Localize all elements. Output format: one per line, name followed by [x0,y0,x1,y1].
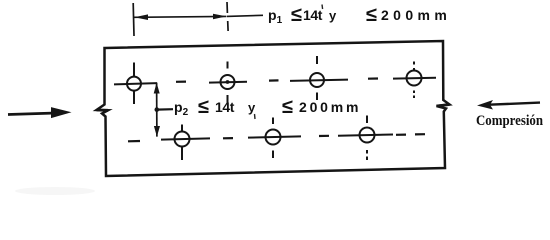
label p1 <= 14t y <= 200mm [268,4,451,26]
svg-text:200mm: 200mm [381,7,451,23]
left compression force arrow [8,107,72,118]
dash left of B1 [128,140,140,143]
bottom row bolt B2 [248,118,301,159]
svg-text:14t: 14t [303,7,323,23]
svg-text:≤: ≤ [366,4,377,26]
row spacing dimension p2 [154,83,160,137]
svg-text:p2: p2 [174,99,189,118]
dash between B1 B2 [223,137,233,139]
svg-text:≤: ≤ [291,4,302,26]
stray scan fleck near bottom label [254,114,257,119]
svg-text:≤: ≤ [198,96,209,118]
label p2 <= 14t y <= 200mm [174,96,361,118]
top row bolt T4 [393,62,436,99]
dash right of B3 (2) [415,133,425,135]
top row bolt T2 [209,62,247,104]
svg-text:p1: p1 [268,7,283,26]
stray scan fleck near top label [321,5,324,10]
dash between T3 T4 [368,77,378,79]
bottom row bolt B1 [161,125,210,161]
right break emphasis [437,105,450,107]
svg-text:≤: ≤ [282,96,293,118]
dash between B2 B3 [319,135,329,137]
svg-text:Compresión: Compresión [476,113,544,129]
svg-text:y: y [329,8,337,23]
top row bolt T1 [114,63,157,105]
svg-text:14t: 14t [215,99,235,115]
leader to p1 label [227,15,263,16]
leader to p2 label [157,108,173,111]
dash right of B3 (1) [396,134,406,136]
top dimension line p1 [134,14,227,20]
top dimension extension line 1 [132,3,135,36]
svg-text:200mm: 200mm [299,99,361,115]
top row bolt T3 [290,56,348,100]
right compression force arrow [477,100,540,110]
left break emphasis [97,109,109,112]
plate outline with break lines [97,41,450,176]
dash between T1 T2 [176,80,186,82]
dash between T2 T3 [269,79,279,81]
top dimension extension line 2 (dashed) [227,2,228,31]
svg-text:y: y [248,100,256,115]
faint scan smudge [15,187,95,195]
bottom row bolt B3 [338,116,393,161]
